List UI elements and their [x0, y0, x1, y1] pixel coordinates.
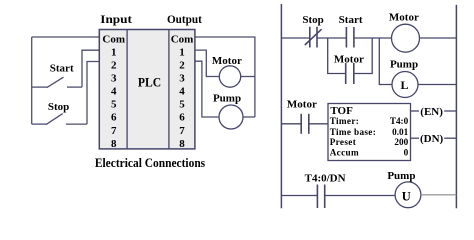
svg-text:Accum: Accum: [330, 148, 359, 158]
svg-text:L: L: [400, 78, 408, 92]
svg-text:Start: Start: [50, 63, 74, 75]
svg-text:Motor: Motor: [334, 54, 364, 66]
wire: left supply rail: [31, 37, 33, 124]
load Motor (circle): [219, 66, 240, 87]
wire: Start to input terminal 1: [82, 50, 99, 87]
branch wire: seal-in right rise: [354, 38, 372, 74]
contact Motor (seal-in NO): [346, 63, 354, 84]
svg-text:4: 4: [179, 86, 185, 98]
svg-text:Com: Com: [171, 33, 194, 45]
svg-text:T4:0/DN: T4:0/DN: [305, 172, 346, 184]
rung 1 wire: Motor coil to right rail: [420, 37, 457, 39]
svg-text:2: 2: [179, 59, 185, 71]
rung 2 wire: Motor contact to TOF box: [309, 123, 328, 125]
ladder left power rail: [280, 4, 282, 208]
svg-text:4: 4: [111, 86, 117, 98]
ladder right power rail: [455, 5, 457, 208]
svg-text:8: 8: [179, 138, 185, 150]
svg-text:Output: Output: [167, 12, 202, 26]
contact Start (NO): [346, 27, 354, 48]
svg-text:Time base:: Time base:: [330, 127, 376, 137]
svg-text:6: 6: [179, 112, 185, 124]
wire: Pump U coil to right rail (gray): [421, 194, 457, 196]
svg-text:8: 8: [111, 138, 117, 150]
coil Motor (circle): [392, 24, 420, 52]
svg-text:Timer:: Timer:: [330, 116, 359, 126]
svg-text:0: 0: [404, 148, 409, 158]
branch wire: seal-in left drop: [328, 38, 346, 74]
wire: Stop to input terminal 2: [87, 62, 99, 125]
rung 3 wire: rail to T4:0/DN contact: [281, 195, 317, 197]
PLC output column divider: [168, 30, 170, 149]
contact Motor (NO): [301, 114, 309, 134]
PLC terminal block body: [99, 30, 195, 149]
rung 1 wire: Stop to Start: [317, 37, 346, 39]
svg-text:(EN): (EN): [420, 106, 443, 118]
rung 1 wire: Start to Motor coil: [354, 37, 392, 39]
coil Pump U (unlatch): [395, 182, 421, 208]
switch Start (knife switch): [32, 77, 82, 87]
wire: TOF DN output to rail: [411, 137, 420, 139]
svg-text:7: 7: [179, 125, 185, 137]
rung 3 wire: contact to Pump U coil: [325, 195, 396, 197]
wire: TOF EN output to rail: [411, 110, 420, 112]
svg-text:Pump: Pump: [387, 170, 415, 182]
PLC input terminal labels Com,1-8: [102, 33, 125, 150]
svg-text:Start: Start: [339, 14, 363, 26]
svg-text:7: 7: [111, 125, 117, 137]
coil Pump L (latch): [392, 72, 418, 98]
wire: output Com to right return rail: [195, 37, 255, 117]
wire: Pump to return rail: [243, 116, 255, 118]
svg-text:200: 200: [394, 137, 408, 147]
svg-text:Input: Input: [100, 12, 132, 26]
svg-text:1: 1: [111, 46, 117, 58]
svg-text:Com: Com: [102, 33, 125, 45]
svg-text:Stop: Stop: [48, 101, 69, 113]
svg-text:Pump: Pump: [390, 59, 418, 71]
svg-text:U: U: [402, 189, 411, 203]
svg-text:5: 5: [111, 99, 117, 111]
svg-text:Electrical Connections: Electrical Connections: [95, 156, 205, 170]
svg-text:T4:0: T4:0: [390, 116, 409, 126]
svg-text:(DN): (DN): [420, 133, 444, 145]
svg-text:PLC: PLC: [138, 76, 161, 90]
wire: supply to Com input terminal: [32, 36, 100, 38]
svg-text:3: 3: [111, 73, 117, 85]
svg-text:Stop: Stop: [302, 14, 323, 26]
rung 1 wire: rail to Stop contact: [281, 37, 309, 39]
svg-text:1: 1: [179, 46, 185, 58]
svg-text:Motor: Motor: [389, 12, 419, 24]
wire: Motor to return rail: [241, 76, 255, 78]
wire: Pump L coil to right rail: [418, 84, 456, 86]
contact T4:0/DN (NO): [317, 185, 324, 209]
svg-text:5: 5: [179, 99, 185, 111]
svg-text:Motor: Motor: [212, 55, 242, 67]
svg-text:2: 2: [111, 59, 117, 71]
svg-text:0.01: 0.01: [392, 127, 408, 137]
svg-text:Preset: Preset: [330, 137, 357, 147]
svg-text:Pump: Pump: [213, 92, 241, 104]
rung 2 wire: rail to Motor contact: [281, 123, 301, 125]
wire: output 2 to Pump: [195, 61, 219, 117]
PLC output terminal labels Com,1-8: [171, 33, 194, 150]
PLC input column divider: [126, 30, 128, 149]
branch wire: to Pump latch coil: [379, 38, 392, 85]
wire: output 1 to Motor: [195, 50, 219, 76]
switch Stop (knife switch): [32, 114, 87, 125]
timer block TOF: [328, 104, 411, 161]
svg-text:6: 6: [111, 112, 117, 124]
svg-text:Motor: Motor: [287, 98, 317, 110]
load Pump (circle): [219, 105, 243, 129]
svg-text:3: 3: [179, 73, 185, 85]
contact Stop (NC): [305, 27, 322, 48]
